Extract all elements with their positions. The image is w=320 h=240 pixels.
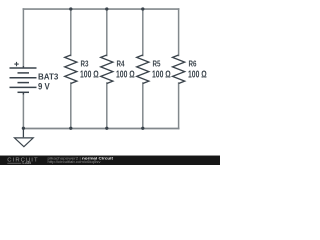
svg-text:LAB: LAB [22,161,31,165]
svg-text:100 Ω: 100 Ω [152,70,171,81]
svg-text:100 Ω: 100 Ω [116,70,135,81]
svg-text:http://circuitlab.com/c6kq5sv: http://circuitlab.com/c6kq5sv [48,160,101,164]
svg-text:R3: R3 [81,60,89,69]
svg-text:100 Ω: 100 Ω [188,70,207,81]
svg-text:R5: R5 [153,60,161,69]
svg-text:9 V: 9 V [38,80,50,91]
svg-text:R4: R4 [117,60,125,69]
svg-text:R6: R6 [189,60,197,69]
svg-text:100 Ω: 100 Ω [80,70,99,81]
